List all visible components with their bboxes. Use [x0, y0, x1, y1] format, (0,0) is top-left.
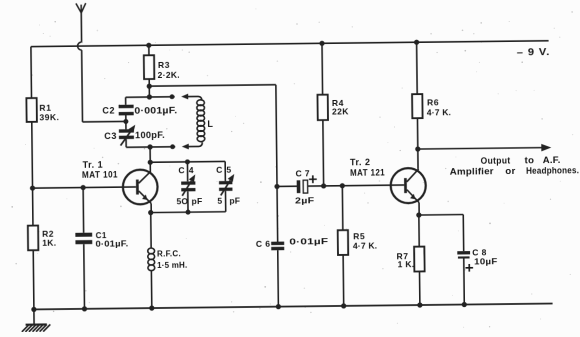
wire base node to R2: [32, 188, 34, 225]
svg-text:or: or: [505, 166, 515, 177]
node collector / C4 box top-left: [148, 160, 153, 165]
svg-text:pF: pF: [192, 196, 203, 206]
antenna: [76, 3, 86, 13]
wire C2 top link: [125, 97, 127, 104]
wire R5 top lead: [341, 186, 344, 230]
coil L bottom arrow: [182, 144, 189, 150]
svg-text:5O: 5O: [176, 196, 188, 206]
wire feed riser down to C7 node: [276, 85, 277, 187]
svg-text:0·01µF.: 0·01µF.: [95, 239, 128, 248]
capacitor C3 variable: [119, 129, 134, 133]
capacitor C8 electrolytic 10uF: [457, 251, 470, 254]
capacitor C5 variable trimmer: [219, 181, 232, 184]
node C6 at ground rail: [276, 304, 281, 309]
node C4 top: [185, 159, 190, 164]
resistor R7: [414, 247, 424, 272]
wire Tr2 emitter lead: [418, 203, 420, 215]
node output tap: [415, 146, 420, 151]
node RFC at ground rail: [149, 305, 154, 310]
inductor L coil: [197, 100, 205, 106]
svg-text:10µF: 10µF: [474, 256, 498, 266]
transistor Q Tr.1 MAT 101: [123, 170, 158, 205]
wire feed from R3 junction to second stage: [149, 85, 276, 86]
wire antenna to C2/C3 node: [82, 120, 125, 122]
svg-text:L: L: [207, 119, 213, 129]
wire C5 bottom lead: [224, 191, 226, 212]
resistor R4: [317, 95, 327, 120]
svg-text:1 K.: 1 K.: [398, 259, 415, 269]
wire R6 top lead: [416, 42, 419, 94]
wire coil top entry: [188, 96, 202, 100]
wire C6 bottom lead: [277, 250, 280, 306]
node ground rail left corner: [31, 307, 36, 312]
node R6 at supply rail: [414, 40, 419, 45]
node C1 at ground rail: [82, 306, 87, 311]
svg-text:4: 4: [189, 165, 194, 175]
wire R3 top lead: [148, 45, 150, 55]
inductor RFC 1.5mH choke: [148, 248, 155, 254]
node R5 at base wire Tr2: [340, 183, 345, 188]
wire C4 top lead: [186, 162, 188, 182]
node emitter Tr2 junction: [416, 212, 421, 217]
svg-text:1K.: 1K.: [42, 238, 56, 248]
svg-text:2·2K.: 2·2K.: [158, 70, 180, 80]
wire trimmer box bottom: [151, 211, 226, 214]
ground: [33, 309, 35, 324]
wire R3 bottom lead: [148, 79, 150, 97]
resistor R5: [338, 230, 348, 255]
node C6/C7 junction: [274, 184, 279, 189]
wire antenna mast upper: [80, 13, 82, 42]
svg-text:39K.: 39K.: [39, 112, 59, 122]
node antenna tap between C2 and C3: [123, 119, 128, 124]
wire R2 bottom to ground rail: [32, 250, 35, 309]
wire C8 bottom lead: [463, 259, 466, 305]
wire C1 top lead: [82, 188, 85, 233]
wire C4 bottom lead: [187, 191, 189, 212]
svg-text:Tr. 2: Tr. 2: [350, 157, 371, 167]
svg-text:0·01µF: 0·01µF: [289, 236, 328, 246]
svg-text:pF: pF: [229, 196, 240, 206]
transistor Q Tr.2 MAT 121: [391, 168, 426, 203]
wire C5 top lead: [224, 161, 226, 181]
wire R4 top lead: [321, 43, 324, 94]
svg-text:100pF.: 100pF.: [135, 130, 165, 140]
svg-text:Tr. 1: Tr. 1: [83, 159, 104, 169]
wire collector riser from tank: [149, 147, 151, 162]
capacitor C2: [119, 105, 134, 109]
node R4 at base wire Tr2: [321, 183, 326, 188]
resistor R2: [28, 226, 38, 251]
capacitor C4 variable trimmer: [181, 181, 195, 184]
wire output with arrow: [418, 148, 542, 149]
svg-text:C 7: C 7: [296, 168, 311, 178]
node R5 at ground rail: [341, 303, 346, 308]
wire emitter to C8: [419, 214, 463, 217]
wire antenna hop over supply rail: [78, 42, 82, 50]
wire R6 to collector Tr2: [416, 118, 419, 169]
wire trimmer box top: [150, 160, 225, 163]
svg-text:Headphones.: Headphones.: [526, 165, 579, 177]
svg-text:2µF: 2µF: [295, 195, 315, 205]
wire left bias column upper: [30, 47, 33, 98]
svg-text:C: C: [178, 165, 184, 175]
svg-text:R6: R6: [427, 98, 439, 108]
node coil bottom tap: [170, 144, 175, 149]
svg-text:5: 5: [226, 165, 231, 175]
resistor R6: [412, 94, 422, 118]
wire emitter to RFC: [150, 213, 152, 249]
resistor R3: [144, 55, 154, 79]
wire R5 bottom lead: [342, 255, 345, 306]
wire C3 bottom lead: [125, 139, 127, 147]
resistor R1: [26, 98, 36, 122]
svg-text:0·001µF.: 0·001µF.: [134, 105, 177, 115]
plus sign C8 polarity: [465, 264, 473, 272]
svg-text:4·7 K.: 4·7 K.: [427, 107, 451, 117]
node R4 at supply rail: [319, 41, 324, 46]
svg-text:4·7 K.: 4·7 K.: [353, 240, 377, 250]
svg-text:22K: 22K: [332, 107, 349, 117]
node C2 link and R3 riser: [147, 94, 152, 99]
node C8 at ground rail: [462, 302, 467, 307]
wire R4 bottom lead: [322, 120, 325, 186]
node C1 at base wire: [81, 185, 86, 190]
svg-text:C3: C3: [104, 131, 117, 141]
wire C3 bottom link: [126, 146, 175, 149]
wire 0V bottom ground rail: [34, 304, 553, 310]
svg-text:R.F.C.: R.F.C.: [157, 249, 181, 258]
wire C1 bottom lead: [83, 244, 86, 309]
wire C6 top lead: [276, 186, 279, 241]
wire -9V top supply rail: [31, 41, 549, 47]
svg-text:1·5 mH.: 1·5 mH.: [157, 261, 187, 270]
svg-text:5: 5: [217, 196, 222, 206]
node R3 at supply rail: [146, 43, 151, 48]
capacitor C1: [75, 233, 92, 237]
wire Tr1 emitter lead: [150, 203, 152, 212]
wire R1 bottom to base node: [31, 122, 34, 188]
wire antenna mast lower: [81, 50, 84, 122]
svg-text:C 6: C 6: [256, 239, 271, 249]
svg-text:C: C: [216, 165, 222, 175]
wire collector lead into Tr1: [149, 162, 151, 171]
plus sign C7 polarity: [309, 175, 317, 183]
wire Tr1 base: [33, 187, 136, 188]
svg-text:MAT 101: MAT 101: [82, 169, 118, 179]
capacitor C7 electrolytic 2uF: [297, 180, 301, 193]
svg-text:MAT 121: MAT 121: [350, 167, 385, 177]
coil L top arrow: [181, 94, 188, 100]
wire into C7: [277, 185, 297, 187]
capacitor C6: [271, 242, 284, 246]
node coil top tap: [170, 94, 175, 99]
node R7 at ground rail: [417, 302, 422, 307]
svg-text:Amplifier: Amplifier: [450, 166, 494, 177]
svg-text:– 9 V.: – 9 V.: [517, 47, 551, 58]
wire R7 top lead: [418, 215, 420, 247]
node R3 collector feed junction: [147, 84, 152, 89]
wire C2/C3 junction lead: [125, 115, 127, 129]
node emitter junction: [148, 210, 153, 215]
wire C7 to Tr2 base: [308, 185, 404, 186]
wire coil bottom exit: [188, 142, 202, 146]
wire RFC to ground rail: [150, 271, 152, 308]
svg-text:R3: R3: [158, 60, 170, 70]
node base Tr1 at left column: [30, 185, 35, 190]
node C4 bottom: [185, 210, 190, 215]
wire R7 bottom lead: [419, 271, 421, 305]
wire C8 top lead: [462, 215, 464, 252]
svg-text:C2: C2: [102, 105, 115, 115]
node C3 link and collector riser: [147, 144, 152, 149]
